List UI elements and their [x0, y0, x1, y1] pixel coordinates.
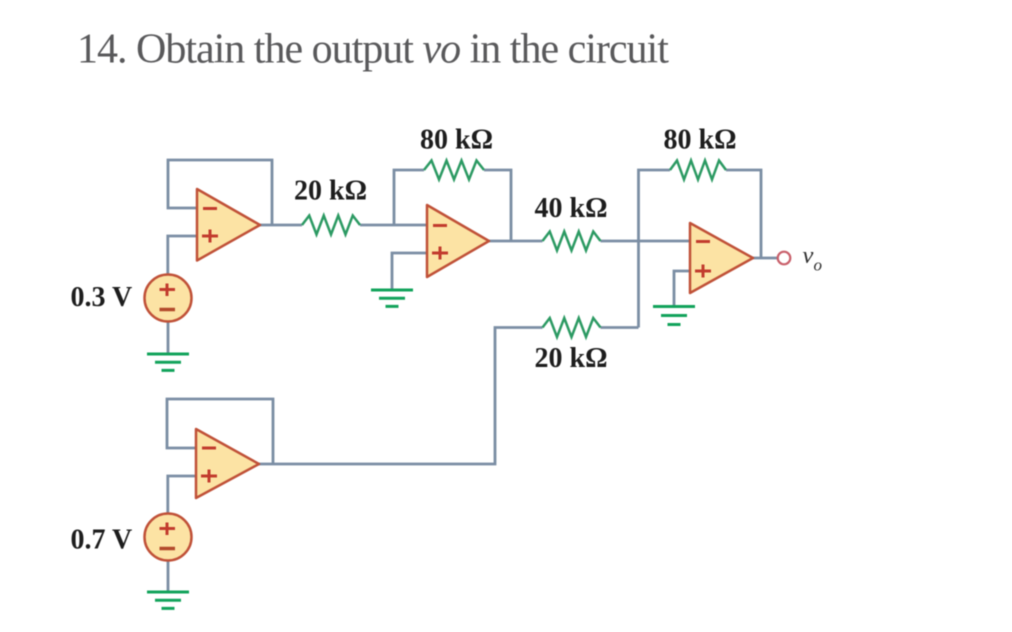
svg-text:0.3 V: 0.3 V: [71, 282, 133, 313]
svg-text:14. Obtain the output vo in th: 14. Obtain the output vo in the circuit: [77, 27, 669, 73]
svg-text:v: v: [803, 242, 814, 269]
svg-text:0.7 V: 0.7 V: [71, 525, 133, 556]
svg-text:40 kΩ: 40 kΩ: [535, 193, 608, 224]
svg-text:80 kΩ: 80 kΩ: [420, 125, 493, 156]
svg-text:20 kΩ: 20 kΩ: [535, 343, 608, 374]
svg-text:20 kΩ: 20 kΩ: [294, 176, 367, 207]
svg-text:80 kΩ: 80 kΩ: [664, 125, 737, 156]
svg-text:o: o: [814, 256, 823, 275]
